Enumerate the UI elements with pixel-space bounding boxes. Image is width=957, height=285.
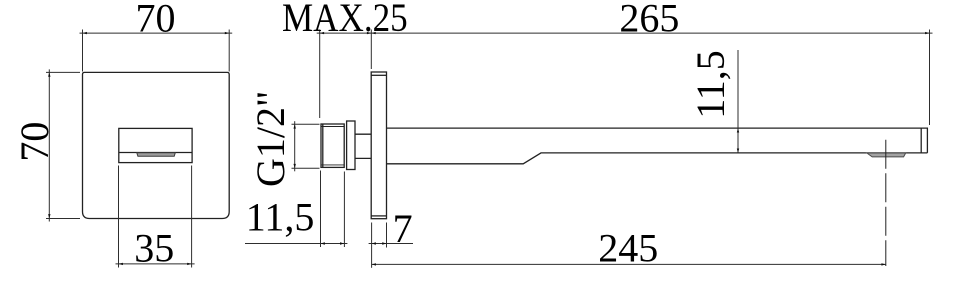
wall plate side view — [371, 72, 386, 219]
plate chamfer line bottom — [371, 215, 386, 217]
arrows dim G1/2 — [294, 124, 296, 128]
thread end face double line — [322, 124, 324, 167]
wall plate front view (70x70 rounded square) — [83, 72, 230, 218]
dim 70 top: extension lines — [82, 30, 84, 72]
dim 245: extension line left (shared with 7) — [371, 223, 373, 268]
dim 7: extension line right — [386, 223, 388, 248]
spout arm outline — [387, 128, 928, 164]
svg-text:265: 265 — [619, 0, 679, 40]
dim G1/2: extension lines — [292, 123, 320, 125]
arrows dim 11,5 spout height — [737, 128, 739, 132]
pipe upper line between flange and plate — [355, 133, 371, 135]
svg-text:11,5: 11,5 — [688, 50, 733, 119]
arrows dim 11,5 thread — [321, 242, 325, 244]
dim G1/2: dimension line — [294, 121, 296, 171]
dim 11,5 thread: dimension line — [245, 243, 347, 245]
svg-text:G1/2": G1/2" — [248, 91, 293, 187]
pipe lower line between flange and plate — [355, 157, 371, 159]
plate chamfer line top — [371, 74, 386, 76]
dim 245: dimension line — [372, 263, 886, 265]
svg-text:70: 70 — [12, 122, 57, 162]
dim MAX.25 and 265: extension lines — [319, 30, 321, 119]
dim MAX.25 and 265: dimension line — [317, 32, 933, 34]
arrowheads — [48, 32, 929, 266]
arrows dim 245 — [372, 263, 376, 265]
dim 70 left: dimension line — [48, 69, 50, 221]
flange collar — [347, 121, 355, 170]
thread crest line bottom — [321, 164, 344, 166]
dim 70 left: extension lines — [46, 71, 80, 73]
dim 11,5 thread: extension lines — [320, 171, 322, 248]
arrows dim 7 — [372, 242, 376, 244]
dimension texts — [12, 0, 733, 271]
svg-text:7: 7 — [393, 206, 413, 251]
dim 11,5 spout height: dimension line — [737, 50, 739, 153]
svg-text:11,5: 11,5 — [246, 195, 315, 240]
arrows dim 70 top — [83, 32, 87, 34]
aerator centerline (dash-dot) — [885, 140, 887, 266]
spout front view rectangle — [119, 128, 192, 162]
svg-text:35: 35 — [134, 226, 174, 271]
spout end cap line — [920, 128, 922, 153]
spout front lower edge line — [119, 152, 192, 154]
arrows dim 265 — [371, 32, 375, 34]
svg-text:70: 70 — [136, 0, 176, 40]
aerator (gray) — [867, 153, 906, 157]
svg-text:245: 245 — [598, 226, 658, 271]
threaded pipe G1/2 side view — [321, 124, 344, 167]
arrows dim 35 — [119, 263, 123, 265]
arrows dim MAX.25 — [320, 32, 324, 34]
thread crest line top — [321, 126, 344, 128]
arrows dim 70 left — [48, 72, 50, 76]
water outlet slot (gray) — [137, 153, 176, 157]
svg-text:MAX.25: MAX.25 — [282, 0, 408, 41]
dim 70 top: dimension line — [80, 32, 233, 34]
dim 35: dimension line — [116, 263, 195, 265]
dimension graphics — [46, 30, 933, 268]
dim 7: dimension line — [369, 243, 413, 245]
dim 35: extension lines — [118, 166, 120, 268]
